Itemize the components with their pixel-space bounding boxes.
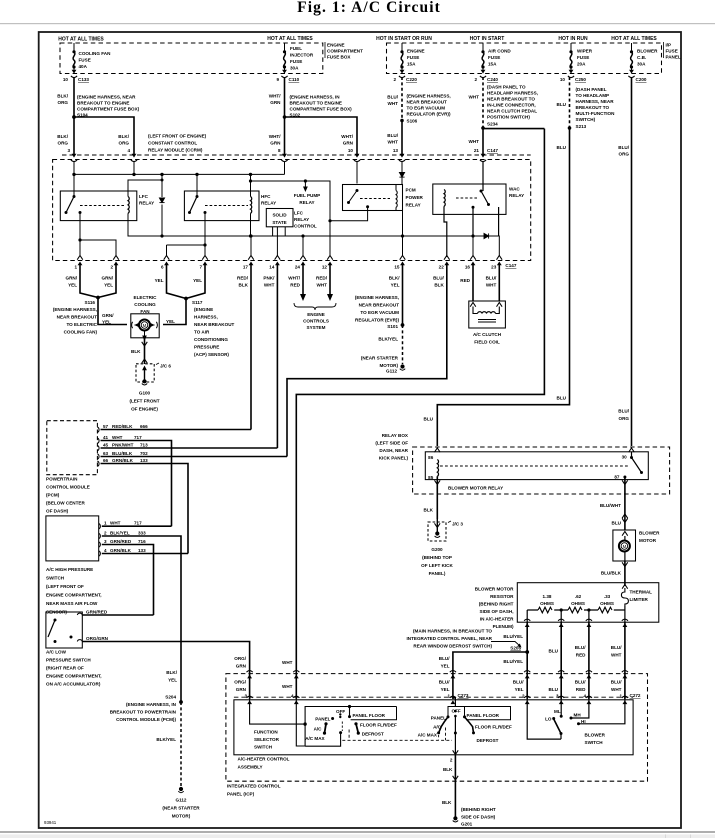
svg-text:GRN: GRN — [236, 664, 247, 669]
WAC relay coil — [444, 190, 445, 207]
connector C147 pin 2 — [113, 256, 119, 260]
svg-text:ELECTRIC: ELECTRIC — [134, 295, 158, 300]
svg-text:FAN: FAN — [140, 309, 150, 314]
wire GRN/YEL pin1 to S116 — [80, 264, 98, 298]
svg-text:WHT: WHT — [486, 283, 497, 288]
svg-text:WHT/: WHT/ — [341, 134, 353, 139]
wire GRN/YEL S116 to fan motor — [98, 298, 127, 325]
svg-text:RELAY BOX: RELAY BOX — [382, 433, 409, 438]
svg-text:RELAY: RELAY — [299, 200, 314, 205]
svg-text:WHT: WHT — [317, 283, 328, 288]
CCRM top pin numbers — [67, 148, 498, 153]
svg-text:YEL: YEL — [441, 664, 450, 669]
A/C-heater control assembly box — [234, 700, 633, 755]
wire PNK/WHT pin 14 run to PCM row 45 — [276, 264, 278, 448]
wire BLU/WHT S106 to CCRM pin 13 — [401, 121, 403, 155]
PCM label — [46, 477, 90, 514]
svg-text:PANEL: PANEL — [431, 716, 446, 721]
PCM power relay coil — [396, 191, 397, 208]
svg-text:24: 24 — [295, 265, 301, 270]
LP switch label — [46, 650, 102, 687]
svg-text:GRN: GRN — [236, 687, 247, 692]
svg-text:NEAR CLUTCH PEDAL: NEAR CLUTCH PEDAL — [487, 109, 537, 114]
svg-text:15A: 15A — [488, 62, 497, 67]
svg-text:13: 13 — [393, 148, 399, 153]
engine fuse 15A — [400, 43, 403, 72]
wire BLU/WHT engine fuse to S106 (dashed) — [401, 77, 403, 121]
svg-text:WHT/: WHT/ — [269, 134, 281, 139]
svg-text:KICK PANEL): KICK PANEL) — [379, 456, 409, 461]
svg-text:14: 14 — [269, 265, 275, 270]
svg-text:NEAR BREAKOUT TO: NEAR BREAKOUT TO — [487, 97, 535, 102]
svg-text:HARNESS,: HARNESS, — [194, 315, 218, 320]
wire BLU/WHT resistor to C272 pin 1 — [624, 622, 626, 669]
HP row 3 GRN/RED 716 — [102, 545, 154, 616]
svg-text:NEAR BREAKOUT: NEAR BREAKOUT — [57, 315, 98, 320]
svg-text:REGULATOR (EVR)): REGULATOR (EVR)) — [407, 112, 451, 117]
svg-text:THERMAL: THERMAL — [630, 590, 653, 595]
svg-text:3: 3 — [67, 148, 70, 153]
diode on pin 13 feed — [357, 162, 402, 184]
CCRM dashed box — [53, 160, 531, 261]
svg-text:NEAR BREAKOUT: NEAR BREAKOUT — [407, 100, 448, 105]
svg-text:C240: C240 — [487, 77, 498, 82]
svg-text:FUSE: FUSE — [666, 49, 678, 54]
svg-text:ORG: ORG — [619, 416, 630, 421]
mechanical link dashed to cluster 2 — [342, 728, 452, 741]
svg-text:1: 1 — [104, 521, 107, 526]
blower motor M — [619, 541, 630, 552]
field coil windings — [473, 307, 499, 314]
resistor box output connector at x=527.2 — [524, 619, 530, 627]
svg-text:(ENGINE HARNESS, IN: (ENGINE HARNESS, IN — [126, 702, 177, 707]
wire WHT long run S234 to ICP pin 4 — [296, 129, 544, 669]
svg-text:RESISTOR: RESISTOR — [490, 594, 514, 599]
connector C147 pin 22 — [444, 256, 450, 260]
svg-text:BLK/YEL: BLK/YEL — [110, 531, 130, 536]
connector C133 pin 10 — [71, 70, 77, 78]
CCRM top connector pin 13 — [399, 154, 405, 162]
svg-text:C110: C110 — [289, 77, 300, 82]
connector C147 pin 15 — [400, 256, 406, 260]
svg-text:133: 133 — [140, 458, 148, 463]
svg-text:(DASH PANEL: (DASH PANEL — [576, 87, 607, 92]
svg-text:713: 713 — [140, 443, 148, 448]
svg-text:BLOWER MOTOR RELAY: BLOWER MOTOR RELAY — [448, 486, 503, 491]
svg-text:716: 716 — [138, 539, 146, 544]
high pressure switch box — [46, 516, 99, 561]
resistor box output connector at x=624.9 — [622, 619, 628, 627]
svg-text:.62: .62 — [575, 594, 582, 599]
taps to box bottom — [527, 608, 625, 622]
svg-text:HOT IN START: HOT IN START — [470, 36, 505, 42]
svg-text:133: 133 — [138, 548, 146, 553]
svg-text:CONTROLS: CONTROLS — [303, 319, 329, 324]
svg-text:ORG: ORG — [619, 152, 630, 157]
resistor box label — [475, 587, 514, 630]
svg-text:HOT AT ALL TIMES: HOT AT ALL TIMES — [267, 36, 313, 42]
wire YEL S117 to fan motor — [163, 299, 186, 325]
svg-text:WAC: WAC — [509, 187, 520, 192]
blower switch ML contact — [560, 698, 562, 716]
svg-text:S234: S234 — [487, 122, 498, 127]
svg-text:23: 23 — [491, 265, 497, 270]
svg-text:BLK: BLK — [131, 349, 141, 354]
svg-text:BLK/: BLK/ — [118, 134, 129, 139]
svg-text:702: 702 — [140, 451, 148, 456]
wire to ground G100 — [144, 368, 146, 380]
svg-text:WHT: WHT — [110, 521, 121, 526]
svg-text:ORG: ORG — [119, 141, 130, 146]
svg-text:OFF: OFF — [336, 709, 345, 714]
svg-text:GRN/: GRN/ — [102, 313, 114, 318]
svg-text:CONTROL MODULE (PCM)): CONTROL MODULE (PCM)) — [116, 717, 176, 722]
svg-text:RELAY: RELAY — [261, 201, 276, 206]
splice S106 — [400, 119, 404, 123]
resistor .62 ohms — [568, 607, 582, 613]
diode on LFC sub-loop — [159, 198, 164, 203]
svg-text:AIR COND: AIR COND — [488, 49, 511, 54]
svg-text:MH: MH — [574, 713, 582, 718]
electric cooling fan box — [131, 314, 159, 338]
svg-text:FUSE BOX: FUSE BOX — [327, 55, 351, 60]
PCM row 63 BLU/BLK 702 — [101, 456, 288, 458]
S206 harness note with arrow — [407, 629, 522, 651]
labels below ICP border + pin numbers C273/C272 — [234, 680, 641, 699]
svg-text:COOLING FAN: COOLING FAN — [79, 51, 112, 56]
wire WHT S234 branch heading right — [483, 128, 544, 130]
svg-text:BLK/YEL: BLK/YEL — [378, 337, 398, 342]
svg-text:HI: HI — [581, 719, 586, 724]
svg-text:85: 85 — [428, 475, 434, 480]
svg-text:FLOOR FLR/DEF: FLOOR FLR/DEF — [475, 725, 512, 730]
HFC relay switch — [188, 195, 248, 214]
svg-text:M: M — [143, 323, 147, 328]
wiper fuse 20A — [569, 43, 572, 72]
wire GRN/YEL pin2 to S116 — [98, 264, 116, 298]
svg-text:LIMITER: LIMITER — [630, 597, 649, 602]
wire labels above ICP — [439, 634, 622, 669]
svg-text:PANEL: PANEL — [666, 55, 681, 60]
svg-text:22: 22 — [439, 265, 445, 270]
connector C147 pin 7 — [202, 256, 208, 260]
svg-text:BREAKOUT TO ENGINE: BREAKOUT TO ENGINE — [290, 101, 343, 106]
connector C250 pin 10 — [568, 70, 574, 78]
ICP connector entry WHT pin 4 — [293, 671, 299, 679]
svg-text:PCM: PCM — [406, 188, 416, 193]
assembly connector entry BLU/WHT pin 1 — [622, 696, 628, 704]
svg-text:BLK/YEL: BLK/YEL — [156, 737, 176, 742]
svg-text:BLK/: BLK/ — [389, 276, 400, 281]
svg-text:FUSE: FUSE — [290, 59, 302, 64]
wire BLU/YEL resistor to C272 pin 2 — [526, 622, 528, 669]
svg-text:GRN/BLK: GRN/BLK — [112, 458, 134, 463]
svg-text:TO HEADLAMP: TO HEADLAMP — [576, 93, 610, 98]
cluster 2 PANEL FLOOR box — [465, 707, 511, 720]
CCRM top connector pin 4 — [131, 154, 137, 162]
svg-text:WHT: WHT — [282, 684, 293, 689]
assembly connector entry BLU/RED pin 4 — [586, 696, 592, 704]
HP row 1 WHT 717 — [102, 525, 172, 527]
svg-text:REGULATOR (EVR)): REGULATOR (EVR)) — [355, 318, 399, 323]
svg-text:DASH, NEAR: DASH, NEAR — [379, 448, 408, 453]
svg-text:(BEHIND TOP: (BEHIND TOP — [422, 555, 452, 560]
svg-text:J/C 6: J/C 6 — [160, 364, 171, 369]
svg-text:BLU: BLU — [557, 145, 567, 150]
svg-text:BLU/: BLU/ — [387, 133, 398, 138]
wire labels above C273/C272 — [234, 656, 292, 669]
svg-text:RED/: RED/ — [316, 276, 328, 281]
svg-text:S213: S213 — [576, 124, 587, 129]
svg-text:YEL: YEL — [102, 320, 111, 325]
svg-text:COMPARTMENT FUSE BOX): COMPARTMENT FUSE BOX) — [77, 107, 140, 112]
svg-text:MOTOR: MOTOR — [639, 538, 657, 543]
svg-text:BLK/: BLK/ — [57, 94, 68, 99]
PCM row 66 GRN/BLK 133 — [101, 464, 189, 554]
resistor box output connector at x=561.2 — [558, 619, 564, 627]
wire WHT air cond fuse to S234 (dashed) — [482, 77, 484, 128]
svg-text:40A: 40A — [79, 64, 88, 69]
wire YEL pin7 to S117 — [186, 264, 205, 299]
svg-text:J/C 3: J/C 3 — [452, 522, 463, 527]
svg-text:WHT: WHT — [388, 101, 399, 106]
wire WHT S234 to CCRM pin 21 C147 — [482, 128, 484, 154]
connector C110 pin 9 — [281, 70, 287, 78]
PANEL FLOOR box — [351, 707, 397, 720]
connector C147 pin 12 — [327, 256, 333, 260]
svg-text:WHT/: WHT/ — [288, 276, 300, 281]
ground G112 (near starter motor) — [400, 364, 404, 368]
splice S213 — [568, 126, 572, 130]
ICP connector entry BLU/YEL pin 2 — [524, 671, 530, 679]
wire RED pin 16 to field coil — [472, 264, 474, 301]
svg-text:87: 87 — [614, 474, 620, 479]
splice S234 — [481, 126, 485, 130]
connector C147 pin 14 — [275, 256, 281, 260]
svg-text:717: 717 — [134, 435, 142, 440]
svg-text:BLOWER: BLOWER — [637, 49, 658, 54]
fan motor M — [139, 320, 150, 331]
svg-text:BLK: BLK — [434, 283, 444, 288]
svg-text:RELAY: RELAY — [406, 203, 421, 208]
svg-text:MULTI-FUNCTION: MULTI-FUNCTION — [576, 111, 616, 116]
wire BLK fan to J/C 6 — [144, 339, 146, 364]
HP switch label — [46, 567, 102, 615]
svg-text:INTEGRATED CONTROL PANEL, NEAR: INTEGRATED CONTROL PANEL, NEAR — [407, 636, 493, 641]
svg-text:GRN/RED: GRN/RED — [86, 610, 108, 615]
fuel injector fuse 30A — [283, 43, 286, 72]
svg-text:CONTROL MODULE: CONTROL MODULE — [46, 485, 90, 490]
pins 24,12 wires inside — [302, 236, 304, 257]
PCM power relay switch — [330, 189, 390, 221]
svg-text:GRN/BLK: GRN/BLK — [110, 548, 132, 553]
svg-text:HOT IN RUN: HOT IN RUN — [558, 36, 588, 42]
svg-text:RED/BLK: RED/BLK — [112, 424, 133, 429]
svg-text:(ENGINE HARNESS,: (ENGINE HARNESS, — [53, 307, 97, 312]
ICP connector entry BLU/YEL pin 1 — [450, 671, 456, 679]
svg-text:OHMS: OHMS — [540, 601, 554, 606]
svg-text:BLK: BLK — [239, 283, 249, 288]
svg-text:SWITCH: SWITCH — [46, 576, 65, 581]
PCM power relay box — [343, 185, 403, 211]
svg-text:COMPARTMENT FUSE BOX): COMPARTMENT FUSE BOX) — [290, 107, 353, 112]
wire BLK/ORG S104 branch to pin 4 — [74, 117, 134, 154]
svg-text:12: 12 — [322, 265, 328, 270]
CCRM top connector pin 10 — [354, 154, 360, 162]
svg-text:C147: C147 — [487, 148, 498, 153]
svg-text:PRESSURE SWITCH: PRESSURE SWITCH — [46, 658, 91, 663]
hairline under title — [0, 23, 715, 24]
ICP connector entry ORG/GRN pin 3 — [247, 671, 253, 679]
svg-text:ORG/: ORG/ — [234, 656, 246, 661]
svg-text:45: 45 — [103, 443, 109, 448]
svg-text:PNK/: PNK/ — [263, 276, 275, 281]
svg-text:C147: C147 — [505, 263, 516, 268]
svg-text:1: 1 — [74, 265, 77, 270]
svg-text:2: 2 — [450, 758, 453, 763]
wire BLU/YEL S206 branch to C273 pin 1 — [453, 652, 527, 669]
PCM pin stubs — [97, 427, 99, 466]
svg-text:A/C LOW: A/C LOW — [46, 650, 67, 655]
svg-text:IN-LINE CONNECTOR,: IN-LINE CONNECTOR, — [487, 103, 536, 108]
ICP connector entry BLU/WHT pin 1 — [622, 671, 628, 679]
splice S206 — [525, 650, 529, 654]
svg-text:16: 16 — [465, 265, 471, 270]
svg-text:I/P: I/P — [666, 43, 672, 48]
wire BLU/RED resistor tap to C272 pin 4 — [588, 622, 590, 669]
svg-text:BLU/: BLU/ — [618, 145, 629, 150]
svg-text:FUSE: FUSE — [488, 55, 500, 60]
svg-text:STATE: STATE — [272, 220, 286, 225]
cluster 2 tee — [448, 707, 465, 718]
svg-text:HOT AT ALL TIMES: HOT AT ALL TIMES — [611, 36, 657, 42]
connector C240 pin 2 — [480, 70, 486, 78]
svg-text:GRN/: GRN/ — [66, 276, 78, 281]
svg-text:WHT: WHT — [469, 95, 480, 100]
low pressure switch box — [46, 612, 82, 648]
pin 14 wire inside — [276, 227, 278, 257]
svg-text:C133: C133 — [78, 77, 89, 82]
svg-text:SIDE OF DASH): SIDE OF DASH) — [461, 815, 496, 820]
wire BLU resistor tap to C272 pin 3 — [560, 622, 562, 669]
svg-text:BLU/: BLU/ — [439, 656, 450, 661]
svg-text:WHT: WHT — [611, 653, 622, 658]
svg-text:LFC: LFC — [294, 211, 304, 216]
svg-text:BLU: BLU — [557, 396, 567, 401]
svg-text:FUSE: FUSE — [79, 58, 91, 63]
svg-text:GRN: GRN — [270, 141, 281, 146]
splice S204 — [179, 700, 183, 704]
svg-text:ORG/GRN: ORG/GRN — [86, 636, 109, 641]
svg-text:20A: 20A — [577, 62, 586, 67]
svg-text:YEL: YEL — [168, 678, 177, 683]
ground G112 (near starter motor, bottom) — [179, 787, 183, 791]
thermal limiter symbol — [621, 588, 628, 606]
svg-text:G112: G112 — [176, 798, 187, 803]
bottom gray scrollbar strip — [0, 831, 715, 833]
svg-text:YEL: YEL — [391, 283, 400, 288]
svg-text:BLU/: BLU/ — [575, 680, 586, 685]
connector C147 pin 23 — [497, 256, 503, 260]
diode on lower bus — [484, 233, 489, 238]
svg-text:(DASH PANEL TO: (DASH PANEL TO — [487, 85, 526, 90]
WAC relay box — [433, 184, 506, 214]
ICP connector entry BLU/RED pin 4 — [586, 671, 592, 679]
svg-text:FUEL: FUEL — [290, 46, 302, 51]
cluster 2 labels — [418, 709, 512, 743]
svg-text:OF LEFT KICK: OF LEFT KICK — [421, 563, 453, 568]
svg-text:BLU/: BLU/ — [611, 680, 622, 685]
svg-text:BREAKOUT TO: BREAKOUT TO — [576, 105, 610, 110]
cluster 2 contacts and blades — [439, 717, 474, 733]
svg-text:PANEL FLOOR: PANEL FLOOR — [467, 713, 500, 718]
svg-text:POWER: POWER — [406, 195, 424, 200]
svg-text:ORG: ORG — [58, 141, 69, 146]
svg-text:RELAY: RELAY — [294, 217, 309, 222]
svg-text:C.B.: C.B. — [637, 55, 646, 60]
wire BLU wiper fuse to S213 (dashed) — [569, 77, 571, 128]
assembly connector entry BLU/YEL pin 1 — [450, 696, 456, 704]
ICP connector entry BLU pin 3 — [558, 671, 564, 679]
svg-text:17: 17 — [243, 265, 249, 270]
svg-text:(RIGHT REAR OF: (RIGHT REAR OF — [46, 666, 84, 671]
svg-text:LO: LO — [545, 717, 552, 722]
WAC relay switch — [456, 162, 499, 236]
PCM row 57 RED/BLK 666 — [101, 429, 252, 431]
svg-text:C272: C272 — [630, 693, 641, 698]
svg-text:A/C: A/C — [314, 727, 323, 732]
svg-text:63: 63 — [103, 451, 109, 456]
wire BLU long run to blower motor relay pin 86 — [437, 128, 569, 446]
wire BLU/WHT relay 87 to blower motor — [624, 477, 626, 530]
svg-text:WHT/: WHT/ — [269, 94, 281, 99]
svg-text:CONDITIONING: CONDITIONING — [194, 337, 228, 342]
svg-text:S106: S106 — [407, 119, 418, 124]
svg-text:BLU/YEL: BLU/YEL — [503, 659, 523, 664]
splice S117 — [184, 297, 188, 301]
svg-text:S116: S116 — [85, 300, 96, 305]
svg-text:BLU/: BLU/ — [611, 645, 622, 650]
svg-text:FLOOR FLR/DEF: FLOOR FLR/DEF — [360, 723, 397, 728]
svg-text:(BEHIND RIGHT: (BEHIND RIGHT — [461, 807, 496, 812]
svg-text:BLU: BLU — [549, 649, 559, 654]
svg-text:WHT: WHT — [611, 687, 622, 692]
wire BLK/YEL pin 15 to S101 — [402, 264, 404, 325]
splice S101 — [401, 323, 405, 327]
ground G201 — [453, 816, 457, 820]
svg-text:PLENUM): PLENUM) — [493, 624, 514, 629]
svg-text:ENGINE COMPARTMENT,: ENGINE COMPARTMENT, — [46, 593, 102, 598]
svg-text:REAR WINDOW DEFROST SWITCH): REAR WINDOW DEFROST SWITCH) — [413, 644, 492, 649]
connector C147 pin 17 — [248, 256, 254, 260]
wire WHT/RED pin 24 arrow — [302, 264, 304, 295]
svg-text:RED: RED — [290, 283, 300, 288]
svg-text:FUEL PUMP: FUEL PUMP — [294, 193, 320, 198]
svg-text:(LEFT SIDE OF: (LEFT SIDE OF — [375, 441, 408, 446]
svg-text:30A: 30A — [290, 66, 299, 71]
svg-text:3: 3 — [104, 539, 107, 544]
svg-text:333: 333 — [138, 531, 146, 536]
svg-text:YEL: YEL — [104, 283, 113, 288]
wire BLU/BLK pin 22 run — [287, 264, 447, 457]
svg-text:666: 666 — [140, 424, 148, 429]
relay switch 30-87 — [629, 448, 635, 452]
svg-text:41: 41 — [103, 435, 109, 440]
fuse box 3 dashed — [387, 43, 662, 74]
LFC output to pins 1,2 — [78, 213, 499, 257]
svg-text:BLU: BLU — [557, 102, 567, 107]
blower switch MH contact — [571, 698, 589, 718]
